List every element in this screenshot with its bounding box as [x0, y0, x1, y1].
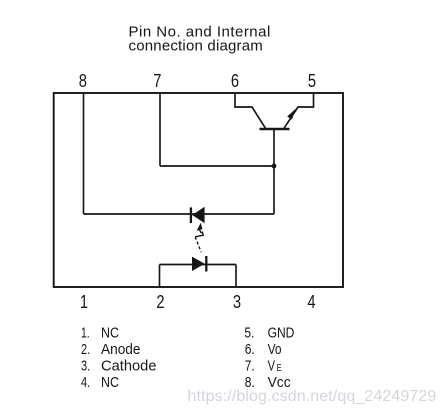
svg-text:2.: 2.: [81, 341, 90, 358]
package outline box: [54, 93, 343, 287]
wire photodiode rail: [84, 213, 275, 215]
cathode bar: [205, 256, 207, 272]
svg-text:connection diagram: connection diagram: [129, 38, 264, 55]
legend right column: [244, 325, 294, 392]
wire collector lead: [235, 93, 266, 128]
triangle: [192, 207, 204, 224]
wire anode rail: [160, 264, 237, 266]
svg-text:E: E: [277, 362, 282, 374]
svg-text:4: 4: [307, 291, 315, 312]
LED D2: [160, 256, 237, 287]
node base junction: [272, 164, 277, 169]
svg-text:5: 5: [308, 70, 316, 91]
svg-text:7.: 7.: [245, 358, 255, 375]
svg-text:4.: 4.: [81, 374, 90, 391]
wire pin8 lead: [83, 93, 85, 214]
wire pin7 lead: [159, 93, 161, 166]
wire emitter lead: [284, 93, 314, 128]
svg-text:Cathode: Cathode: [101, 358, 157, 375]
emitter arrow: [287, 109, 296, 120]
svg-text:6: 6: [231, 70, 239, 91]
svg-text:3: 3: [233, 291, 241, 312]
svg-text:https://blog.csdn.net/qq_24249: https://blog.csdn.net/qq_24249729: [188, 388, 437, 405]
svg-text:8: 8: [79, 70, 87, 91]
svg-text:NC: NC: [101, 374, 119, 391]
legend left column: [81, 325, 157, 392]
photodiode D1: [191, 207, 205, 224]
wire pin3 lead: [235, 265, 237, 288]
svg-text:7: 7: [153, 70, 161, 91]
wire pin2 lead: [159, 265, 161, 288]
svg-text:3.: 3.: [81, 358, 90, 375]
light arrow: [195, 223, 203, 253]
triangle: [192, 257, 205, 271]
svg-text:6.: 6.: [245, 341, 255, 358]
cathode bar: [190, 207, 192, 223]
wire base drop: [273, 129, 275, 214]
transistor Q1: [235, 93, 314, 129]
svg-text:1: 1: [80, 291, 88, 312]
svg-text:2: 2: [156, 291, 164, 312]
svg-text:1.: 1.: [81, 325, 90, 342]
wire pin7 to base: [160, 165, 274, 167]
base bar: [260, 128, 290, 131]
svg-text:5.: 5.: [244, 325, 254, 342]
svg-text:Vo: Vo: [268, 341, 282, 358]
svg-text:GND: GND: [268, 325, 295, 342]
svg-text:Anode: Anode: [101, 341, 141, 358]
svg-text:V: V: [268, 358, 275, 375]
svg-text:NC: NC: [101, 325, 119, 342]
title: [129, 23, 271, 54]
